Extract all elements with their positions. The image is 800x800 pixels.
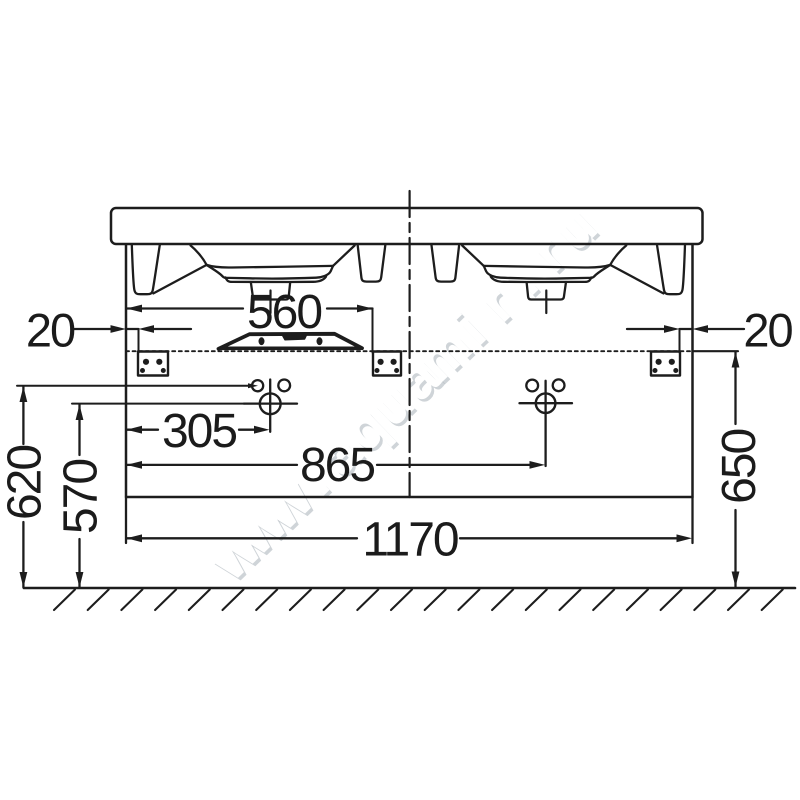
svg-text:865: 865 (300, 439, 374, 492)
svg-text:20: 20 (26, 304, 75, 357)
svg-text:570: 570 (55, 460, 108, 534)
svg-text:650: 650 (713, 429, 766, 503)
svg-text:1170: 1170 (362, 514, 458, 567)
svg-text:305: 305 (162, 405, 236, 458)
svg-text:20: 20 (743, 304, 792, 357)
svg-text:620: 620 (0, 446, 52, 520)
svg-text:560: 560 (247, 286, 321, 339)
